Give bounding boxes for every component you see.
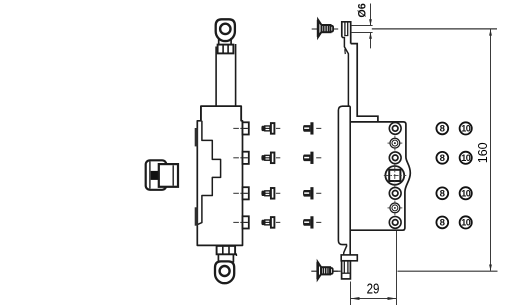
top nut — [218, 45, 234, 54]
slider step profile — [197, 121, 220, 225]
size 10 row4 — [460, 216, 472, 228]
hole 4 — [389, 217, 401, 229]
svg-text:29: 29 — [367, 280, 380, 297]
phi6 ext line bottom — [351, 32, 373, 34]
size 10 row2 — [460, 152, 472, 164]
boss row4 — [233, 216, 249, 228]
boss row3 — [233, 187, 249, 199]
phi6 arrow up — [370, 33, 372, 49]
top eyelet bore — [220, 24, 230, 34]
bottom link — [217, 254, 219, 262]
phi6 arrow down — [370, 4, 372, 26]
drive square circle — [385, 166, 404, 185]
size 8 row2 — [436, 152, 448, 164]
bottom eyelet bore — [220, 266, 230, 276]
nut side tab — [235, 253, 236, 256]
rivet 1 — [388, 136, 403, 151]
size 10 row3 — [460, 187, 472, 199]
guide tab lower — [195, 207, 198, 225]
29 dimension line — [351, 298, 397, 300]
bottom fastener — [311, 262, 338, 279]
160 top reference line — [372, 28, 497, 30]
face plate bar — [338, 106, 350, 244]
bottom claw diagonal — [344, 245, 347, 253]
160 bottom reference line — [398, 270, 498, 272]
piston tube — [215, 47, 217, 107]
svg-text:Ø6: Ø6 — [356, 3, 368, 17]
screw B4 — [303, 216, 321, 228]
29 ext line right — [396, 231, 398, 305]
bracket body — [146, 160, 167, 190]
web right edge with ledge — [351, 44, 378, 122]
rivet 2 — [388, 201, 403, 216]
claw — [342, 37, 349, 107]
guide tab upper — [195, 128, 198, 146]
bottom nut — [217, 246, 236, 254]
160 dimension line — [490, 29, 492, 270]
stud block — [159, 164, 178, 187]
bottom hook box — [342, 261, 351, 279]
29 ext line left — [350, 282, 352, 305]
bracket inner line — [149, 162, 151, 189]
phi6 ext line top — [351, 25, 373, 27]
screw A3 — [261, 188, 280, 199]
boss row2 — [233, 152, 249, 164]
bottom eyelet — [215, 261, 234, 283]
screw A2 — [261, 153, 280, 164]
boss row1 — [233, 122, 249, 134]
top link — [218, 38, 220, 45]
gear body — [197, 106, 242, 245]
top fastener — [312, 20, 339, 37]
hole 3 — [389, 187, 401, 199]
stud block inner line — [172, 165, 174, 185]
top eyelet — [216, 19, 235, 41]
screw A1 — [261, 123, 280, 134]
size 8 row3 — [436, 187, 448, 199]
size 8 row4 — [436, 217, 448, 229]
top hook box — [342, 22, 351, 44]
screw B1 — [303, 122, 321, 134]
size 8 row1 — [436, 122, 448, 134]
hole 2 — [389, 152, 401, 164]
size 10 row1 — [460, 122, 472, 134]
screw A4 — [261, 217, 280, 228]
bottom foot plate — [341, 255, 357, 261]
hole 1 — [389, 122, 401, 134]
screw B2 — [303, 152, 321, 164]
housing outline — [350, 122, 410, 230]
svg-text:160: 160 — [475, 142, 490, 163]
bracket dark insert — [151, 171, 159, 180]
screw B3 — [303, 187, 321, 199]
